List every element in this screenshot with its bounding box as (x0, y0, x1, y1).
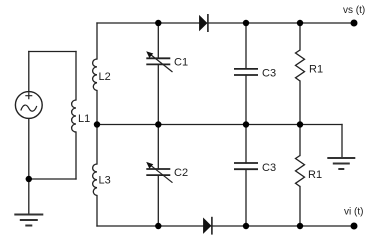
source V1 (AC) (15, 92, 42, 119)
node bottom C3 (243, 223, 249, 229)
inductor L3 (93, 164, 97, 195)
node middle R1 (297, 121, 303, 127)
node middle C1 (155, 121, 161, 127)
node middle C3 (243, 121, 249, 127)
node bottom R1 (297, 223, 303, 229)
wire top rail (97, 22, 354, 24)
wire C1/C2 column (157, 23, 159, 226)
svg-text:C2: C2 (174, 167, 188, 179)
resistor R1 (bottom) (296, 156, 305, 187)
svg-text:R1: R1 (309, 64, 323, 76)
node top C1 (155, 20, 161, 26)
svg-text:C1: C1 (174, 57, 188, 69)
svg-text:vs (t): vs (t) (343, 5, 365, 16)
svg-text:R1: R1 (308, 169, 322, 181)
wire right ground stub (341, 125, 343, 159)
capacitor C3 (top) (234, 69, 258, 75)
wire source loop top (29, 51, 76, 53)
inductor L1 (72, 100, 76, 132)
wire left column (L2/L3 branch) (96, 23, 98, 226)
wire bottom rail (97, 225, 354, 227)
ground (right) (327, 158, 355, 169)
svg-text:C3: C3 (262, 162, 276, 174)
svg-text:L3: L3 (99, 175, 111, 187)
ground (left) (14, 215, 43, 226)
diode D2 (bottom) (203, 217, 212, 235)
svg-text:C3: C3 (262, 67, 276, 79)
wire C3 column (245, 23, 247, 226)
diode D1 (top) (199, 14, 208, 32)
svg-text:L1: L1 (78, 113, 90, 125)
node source junction (26, 176, 32, 182)
capacitor C3 (bottom) (234, 163, 258, 169)
svg-text:L2: L2 (99, 71, 111, 83)
wire source bottom link (29, 178, 76, 180)
node top R1 (297, 20, 303, 26)
capacitor C2 (variable) (146, 162, 172, 183)
wire source left column (28, 52, 30, 215)
wire middle rail (97, 124, 342, 126)
svg-text:vi (t): vi (t) (344, 207, 363, 218)
wire R1 column (299, 23, 301, 226)
node middle L (94, 121, 100, 127)
resistor R1 (top) (296, 50, 305, 81)
node bottom C2 (155, 223, 161, 229)
node vs terminal (351, 20, 358, 27)
inductor L2 (93, 59, 97, 91)
node top C3 (243, 20, 249, 26)
node vi terminal (351, 223, 358, 230)
wire L1 branch (75, 52, 77, 180)
capacitor C1 (variable) (146, 51, 172, 72)
